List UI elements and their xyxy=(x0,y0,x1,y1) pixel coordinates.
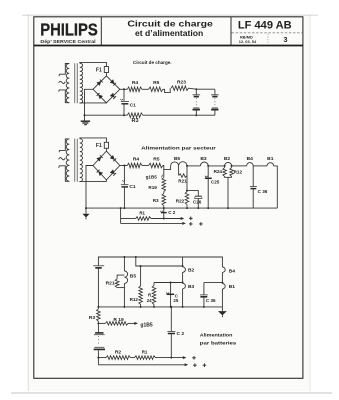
R21 label circuit 2 xyxy=(178,179,187,184)
svg-text:C26: C26 xyxy=(193,199,202,204)
wire fuse to bridge top xyxy=(105,73,107,76)
capacitor C2 circuit 3 plates xyxy=(167,332,175,334)
resistor R3 circuit 1 xyxy=(127,113,143,118)
svg-text:B3: B3 xyxy=(188,284,195,290)
svg-text:B4: B4 xyxy=(247,156,254,162)
LF box inner divider xyxy=(267,34,269,46)
capacitor C2 circuit 2 stem xyxy=(163,208,165,219)
svg-text:R23: R23 xyxy=(177,80,186,86)
bridge2 diode top-left xyxy=(96,155,102,161)
svg-text:C25: C25 xyxy=(211,180,220,185)
capacitor C2 circuit 2 symbol xyxy=(161,211,167,213)
vertical R19 R3 chain circuit 2 xyxy=(163,169,165,177)
svg-text:R3: R3 xyxy=(153,198,159,203)
resistor R23 xyxy=(171,86,189,91)
PHILIPS logo text xyxy=(40,19,98,39)
capacitor C36 circuit 3 plates xyxy=(200,295,208,297)
earth ground symbol circuit 1 xyxy=(81,115,90,125)
rail B1 to right corner and down xyxy=(274,166,278,208)
svg-text:g1B5: g1B5 xyxy=(140,323,152,329)
svg-text:B5: B5 xyxy=(174,156,181,162)
rail B5 to B3 xyxy=(187,165,200,167)
svg-text:C1: C1 xyxy=(130,102,137,108)
svg-text:R3: R3 xyxy=(131,118,138,124)
connector bump B1 circuit 2 xyxy=(267,163,274,166)
svg-text:et d’alimentation: et d’alimentation xyxy=(135,28,203,38)
capacitor C1 branch wire upper xyxy=(123,89,125,101)
node R19 tap circuit 3 xyxy=(97,322,99,324)
capacitor C36 circuit 3 wire xyxy=(204,282,224,284)
R21 label circuit 3 xyxy=(106,281,115,287)
doc number LF 449 AB xyxy=(238,20,292,32)
page top edge xyxy=(22,14,318,16)
T1 primary top terminal wire xyxy=(59,64,69,77)
svg-text:g1B5: g1B5 xyxy=(146,175,158,180)
capacitor C25 circuit 2 branch xyxy=(207,166,209,209)
battery branch 2 upper cell xyxy=(211,95,219,97)
output drop wire circuit 2 xyxy=(120,207,122,223)
capacitor C1 circuit 2 plates xyxy=(121,180,129,187)
resistor R12 circuit 3 xyxy=(139,265,143,308)
g1B5 grid label circuit 3 xyxy=(140,323,152,329)
R12 label circuit 2 xyxy=(234,169,243,174)
fuse F10 body xyxy=(104,67,108,73)
svg-text:24: 24 xyxy=(147,298,152,303)
wire R4 to R5 xyxy=(142,88,149,90)
battery column to output lines circuit 3 xyxy=(97,350,99,365)
svg-text:B4: B4 xyxy=(229,268,236,274)
AC tilde symbol circuit 1 xyxy=(59,81,66,83)
svg-text:R5: R5 xyxy=(153,80,160,86)
capacitor C25 circuit 2 symbol xyxy=(205,176,212,179)
header divider right xyxy=(230,17,232,46)
C2 label circuit 2 xyxy=(168,210,176,215)
R3 label circuit 1 xyxy=(131,118,138,124)
svg-text:R3: R3 xyxy=(89,315,96,321)
svg-text:R21: R21 xyxy=(178,179,187,184)
svg-text:R5: R5 xyxy=(153,156,160,162)
transformer T2 core xyxy=(75,139,77,182)
B3 label circuit 2 xyxy=(200,156,207,162)
transformer T2 primary winding xyxy=(66,139,69,181)
R5 label circuit 1 xyxy=(153,80,160,86)
R24 label circuit 3 xyxy=(147,293,152,303)
R19 arrow to g1B5 xyxy=(134,322,138,325)
rail B4 to B1 xyxy=(253,165,267,167)
R4 label circuit 1 xyxy=(132,80,139,86)
svg-text:R1: R1 xyxy=(142,350,148,355)
bridge diode top-right xyxy=(110,79,116,85)
capacitor C36 circuit 2 plates xyxy=(250,187,257,189)
wire bridge left vertex to ground rail xyxy=(85,89,94,115)
output line 2 arrow circuit 3 xyxy=(185,363,189,366)
battery lower dotted cells circuit 3 xyxy=(97,336,99,346)
resistor R19 circuit 2 xyxy=(162,177,166,191)
svg-text:B1: B1 xyxy=(267,156,274,162)
svg-text:25: 25 xyxy=(173,298,178,303)
R19 label circuit 3 xyxy=(113,317,124,323)
bottom rail circuit 2 xyxy=(85,207,277,209)
node bridge DC+ junction xyxy=(120,88,127,90)
resistor R5 circuit 2 xyxy=(149,163,163,168)
svg-text:R4: R4 xyxy=(133,156,140,162)
resistor R4 circuit 2 xyxy=(127,163,142,168)
R24 label circuit 2 xyxy=(214,169,223,174)
svg-text:C 36: C 36 xyxy=(258,189,268,194)
capacitor C2 circuit 3 branch xyxy=(170,306,172,359)
T2 primary bottom terminal wire xyxy=(59,166,70,182)
battery branch 2 lower cell xyxy=(211,108,218,110)
R23 label xyxy=(177,80,186,86)
wire bridge2 left vertex to ground rail xyxy=(86,166,93,209)
output line 1 circuit 2 with R1 xyxy=(121,217,181,221)
capacitor C36 circuit 2 branch xyxy=(252,166,254,208)
C36 label circuit 2 xyxy=(258,189,268,194)
R3 label circuit 2 xyxy=(153,198,159,203)
bridge rectifier diamond circuit 2 xyxy=(93,151,120,180)
Dep SERVICE Central text xyxy=(40,39,95,44)
resistor R3 circuit 2 xyxy=(162,192,166,209)
R12 label circuit 3 xyxy=(130,297,139,302)
battery branch 1 lower cell xyxy=(193,108,200,110)
svg-text:PHILIPS: PHILIPS xyxy=(40,19,98,39)
title line 2 xyxy=(135,28,203,38)
svg-text:R 19: R 19 xyxy=(113,317,124,323)
resistor R21 circuit 2 xyxy=(179,174,187,178)
capacitor C1 plates xyxy=(121,99,129,104)
bridge2 diode bottom-left xyxy=(97,170,103,176)
svg-text:C1: C1 xyxy=(129,184,136,190)
R24 R12 join bar and drop wire xyxy=(225,176,232,209)
wire fuse to bridge top circuit 2 xyxy=(105,148,107,151)
page left edge xyxy=(27,14,29,391)
resistor R22 circuit 2 xyxy=(185,191,189,209)
top rail circuit 3 xyxy=(98,257,222,267)
g1B5 grid label circuit 2 xyxy=(146,175,163,180)
wire jog R5 to B5 choke xyxy=(163,166,171,170)
svg-text:R24: R24 xyxy=(214,169,223,174)
capacitor C26 branch wire xyxy=(187,191,198,196)
capacitor C1 circuit 2 label xyxy=(129,184,136,190)
svg-text:LF 449 AB: LF 449 AB xyxy=(238,20,292,32)
connector bump B4 circuit 3 xyxy=(222,267,225,272)
B2 feed drop wire circuit 3 xyxy=(135,256,184,267)
battery B top cell circuit 3 xyxy=(93,266,104,268)
resistor R4 circuit 1 xyxy=(127,87,142,92)
wire R4 to R5 circuit 2 xyxy=(142,165,149,167)
connector bump B2 circuit 3 xyxy=(183,267,186,272)
wire R23 to battery branches xyxy=(189,88,215,90)
battery branch 1 bottom stem xyxy=(195,111,197,117)
wire secondary top to fuse xyxy=(80,62,107,66)
ground rail circuit 1 right segment xyxy=(143,114,215,116)
output line 1 plus circuit 3 xyxy=(192,356,196,360)
bridge diode bottom-right xyxy=(110,93,116,99)
date 12.03.54 text xyxy=(239,39,257,44)
R1 label circuit 3 xyxy=(142,350,148,355)
wire secondary bottom to bridge bottom xyxy=(80,102,107,104)
bridge diode top-left xyxy=(96,80,102,86)
outer frame xyxy=(34,17,303,379)
R2 label circuit 3 xyxy=(115,350,122,356)
svg-text:B3: B3 xyxy=(200,156,207,162)
battery branch 2 dotted cells xyxy=(214,98,216,107)
transformer T1 core xyxy=(75,63,77,103)
T1 primary bottom terminal wire xyxy=(59,90,70,103)
rail B2 to B4 xyxy=(232,165,247,167)
svg-text:B5: B5 xyxy=(130,274,137,280)
svg-text:R12: R12 xyxy=(234,169,243,174)
B2 B3 column circuit 3 xyxy=(182,257,184,308)
header bottom rule xyxy=(34,45,303,47)
svg-text:12. 03. 54: 12. 03. 54 xyxy=(239,39,257,44)
output line 2 circuit 2 xyxy=(121,222,183,224)
circuit 3 caption line 2 xyxy=(200,340,237,346)
B1 label circuit 3 xyxy=(229,284,236,290)
svg-text:F1: F1 xyxy=(96,67,102,73)
resistor R21 circuit 3 xyxy=(115,275,124,288)
svg-text:R1: R1 xyxy=(139,211,145,216)
R1 label circuit 2 xyxy=(139,211,145,216)
common rail circuit 3 xyxy=(98,306,222,308)
page number 3 xyxy=(284,35,288,44)
battery branch 1 dotted cells xyxy=(195,98,197,107)
B3 label circuit 3 xyxy=(188,284,195,290)
resistor R19 circuit 3 xyxy=(98,322,134,326)
R5 label circuit 2 xyxy=(153,156,160,162)
output line 1 plus xyxy=(189,217,193,221)
wire jog R5 to R23 xyxy=(163,88,170,92)
B5 label circuit 3 xyxy=(130,274,137,280)
chassis ground symbol circuit 3 xyxy=(218,307,227,317)
resistor R12 circuit 2 xyxy=(230,166,234,177)
resistor R3 circuit 3 xyxy=(97,307,101,324)
vertical B5-right node down wire xyxy=(186,165,188,192)
capacitor C1 branch wire lower xyxy=(123,104,125,116)
resistor R24 circuit 2 xyxy=(223,166,227,177)
B5 label circuit 2 xyxy=(174,156,181,162)
svg-text:R22: R22 xyxy=(176,199,185,204)
bridge2 diode bottom-right xyxy=(110,169,116,175)
B2 label circuit 2 xyxy=(224,156,231,162)
B4 label circuit 3 xyxy=(229,268,236,274)
B5 branch lower wire circuit 3 xyxy=(123,283,125,308)
battery lower section upper cell circuit 3 xyxy=(94,323,105,334)
node bridge2 DC+ junction xyxy=(120,165,127,167)
svg-text:R19: R19 xyxy=(148,185,157,190)
resistor R24 circuit 3 xyxy=(152,283,156,308)
circuit 3 caption line 1 xyxy=(200,333,233,339)
capacitor C25 circuit 3 symbol xyxy=(167,292,175,294)
svg-text:B1: B1 xyxy=(229,284,236,290)
circuit 2 caption xyxy=(141,145,216,151)
battery column wire to common rail xyxy=(97,269,99,308)
svg-text:B2: B2 xyxy=(188,268,195,274)
svg-text:Circuit de charge: Circuit de charge xyxy=(127,18,213,28)
output line 1 arrow xyxy=(181,217,185,220)
output line 2 plus signs xyxy=(189,222,203,226)
header divider left xyxy=(100,17,102,46)
ground rail circuit 1 left segment xyxy=(84,114,128,116)
page bottom scan line xyxy=(11,392,332,394)
bridge diode bottom-left xyxy=(97,93,103,99)
battery branch 2 top stem xyxy=(214,89,216,94)
fuse F10 label circuit 2 xyxy=(96,143,102,149)
battery branch 1 top stem xyxy=(195,89,197,94)
connector bump B3 circuit 3 xyxy=(182,282,186,289)
T2 primary top terminal wire xyxy=(59,139,69,152)
svg-text:R4: R4 xyxy=(132,80,139,86)
connector bump B4 circuit 2 xyxy=(247,163,254,166)
svg-text:Dép’ SERVICE Central: Dép’ SERVICE Central xyxy=(40,39,95,44)
vibrator B5 winding circuit 3 xyxy=(124,271,127,283)
R22 label circuit 2 xyxy=(176,199,185,204)
rail B3 to B2 xyxy=(208,165,224,167)
B1 label circuit 2 xyxy=(267,156,274,162)
fuse F10 body circuit 2 xyxy=(104,142,108,148)
svg-text:B2: B2 xyxy=(224,156,231,162)
battery lower bottom cell circuit 3 xyxy=(94,347,105,349)
capacitor C1 circuit 2 branch lower xyxy=(123,187,125,209)
svg-text:C 2: C 2 xyxy=(177,331,185,337)
B4 B1 column circuit 3 xyxy=(221,272,223,307)
C25 label circuit 3 xyxy=(173,293,178,303)
vibrator B5 winding humps xyxy=(171,162,187,166)
output line 2 circuit 3 xyxy=(98,364,184,366)
vibrator B5 branch top wire circuit 3 xyxy=(123,256,125,271)
page right edge xyxy=(309,14,311,391)
connector bump B3 circuit 2 xyxy=(200,162,209,167)
svg-text:C 36: C 36 xyxy=(206,298,216,303)
connector bump B2 circuit 2 xyxy=(224,162,233,166)
AC tilde symbol circuit 2 xyxy=(59,158,66,160)
svg-text:Alimentation par secteur: Alimentation par secteur xyxy=(141,145,216,151)
capacitor C26 symbol xyxy=(195,196,202,198)
capacitor C1 label xyxy=(130,102,137,108)
battery branch 1 upper cell xyxy=(193,95,201,97)
svg-text:F1: F1 xyxy=(96,143,102,149)
C36 label circuit 3 xyxy=(206,298,216,303)
chassis ground symbol circuit 2 xyxy=(82,208,89,219)
connector bump B1 circuit 3 xyxy=(222,284,225,289)
svg-text:C 2: C 2 xyxy=(168,210,176,215)
capacitor C26 lower stem xyxy=(197,199,199,210)
C26 label xyxy=(193,199,202,204)
battery branch 2 bottom stem xyxy=(214,111,216,116)
bridge rectifier diamond circuit 1 xyxy=(93,76,120,103)
output line 2 arrow xyxy=(182,222,186,225)
C25 label circuit 2 xyxy=(211,180,220,185)
fuse F10 label xyxy=(96,67,102,73)
capacitor C36 circuit 3 branch xyxy=(203,283,205,308)
svg-text:Alimentation: Alimentation xyxy=(200,333,233,339)
C2 label circuit 3 xyxy=(177,331,185,337)
svg-text:Circuit de charge.: Circuit de charge. xyxy=(133,60,172,66)
R21 tap from B5 cusp xyxy=(178,166,180,175)
transformer T1 primary winding xyxy=(66,64,69,103)
transformer T2 secondary winding xyxy=(80,139,83,182)
B3 node wire circuit 3 xyxy=(154,282,183,284)
transformer T1 secondary winding xyxy=(80,63,83,103)
svg-text:par batteries: par batteries xyxy=(200,340,237,346)
B2 label circuit 3 xyxy=(188,268,195,274)
bridge2 diode top-right xyxy=(110,155,116,161)
RB/MD text xyxy=(240,35,253,40)
output line 1 circuit 3 with R2 R1 xyxy=(98,356,182,360)
resistor R5 circuit 1 xyxy=(149,87,163,92)
R3 label circuit 3 xyxy=(89,315,96,321)
wire T2 secondary bottom to bridge bottom xyxy=(80,180,107,182)
svg-text:R2: R2 xyxy=(115,350,122,356)
svg-text:R12: R12 xyxy=(130,297,139,302)
wire T2 secondary top to fuse xyxy=(80,138,107,142)
B4 label circuit 2 xyxy=(247,156,254,162)
LF box dashed divider xyxy=(232,32,303,34)
title line 1 xyxy=(127,18,213,28)
svg-text:3: 3 xyxy=(284,35,288,44)
R19 label circuit 2 xyxy=(148,185,157,190)
capacitor C25 circuit 3 branch xyxy=(170,283,172,308)
output line 1 arrow circuit 3 xyxy=(183,356,187,359)
output line 2 plus signs circuit 3 xyxy=(193,363,206,367)
circuit 1 caption xyxy=(133,60,172,66)
capacitor C1 circuit 2 branch upper xyxy=(123,166,125,185)
svg-text:R21: R21 xyxy=(106,281,115,287)
R4 label circuit 2 xyxy=(133,156,140,162)
